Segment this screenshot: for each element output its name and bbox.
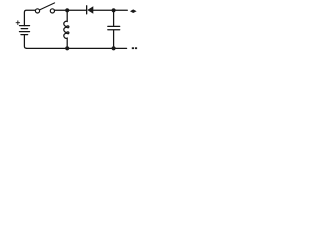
node D junction dot (capacitor to bottom rail) — [112, 46, 116, 50]
node C junction dot (inductor to bottom rail) — [65, 46, 69, 50]
wire from switch to node A — [54, 9, 67, 11]
inductor L1 — [64, 10, 69, 48]
switch S1 — [35, 3, 54, 13]
bottom rail wire — [27, 47, 127, 49]
node B junction dot (top of capacitor) — [112, 8, 116, 12]
positive output terminal mark — [130, 9, 137, 13]
diode D1 (cathode bar left, triangle pointing left) — [87, 6, 94, 14]
node A junction dot (top of inductor) — [65, 8, 69, 12]
wire top-left from battery positive up and right to switch — [24, 10, 35, 25]
capacitor C1 — [108, 10, 120, 48]
wire from node A to diode cathode — [67, 9, 86, 11]
battery B1 — [20, 26, 30, 35]
battery plus label — [16, 21, 20, 25]
wire from node B to positive output terminal — [114, 9, 128, 11]
negative output terminal mark — [132, 47, 137, 49]
wire from diode anode to node B — [93, 9, 113, 11]
wire bottom-left from battery negative down to bottom rail — [24, 35, 26, 49]
